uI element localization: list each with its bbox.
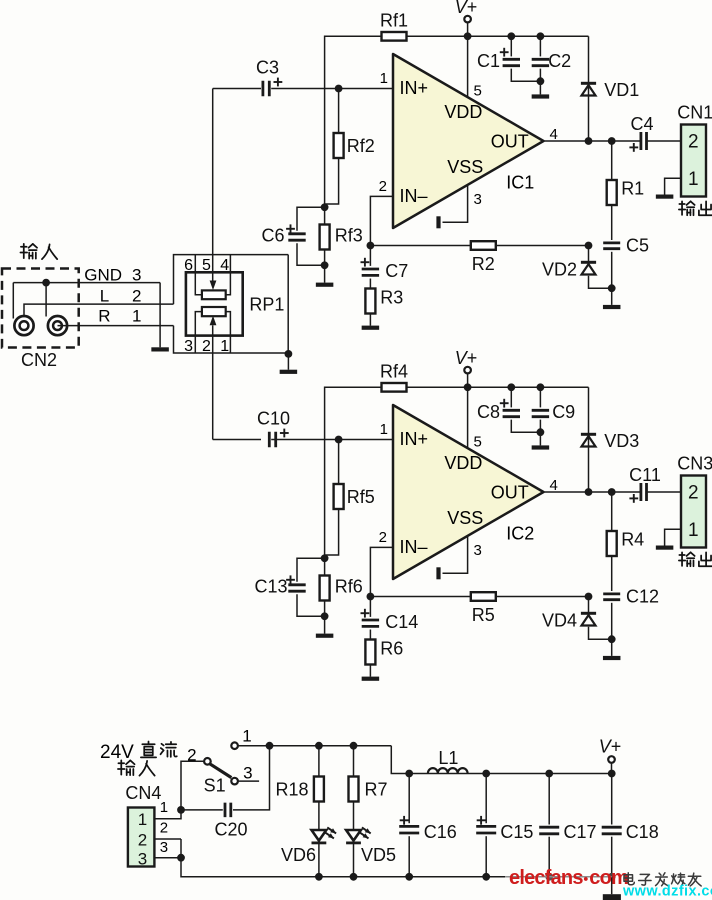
connector CN1	[681, 125, 706, 197]
diode VD3	[581, 434, 596, 446]
wire	[589, 276, 612, 288]
ground	[362, 677, 380, 681]
wire	[505, 876, 612, 878]
svg-text:IN+: IN+	[400, 429, 429, 449]
junction	[608, 137, 616, 145]
wire	[369, 314, 371, 326]
resistor Rf1	[382, 32, 407, 41]
wire	[611, 603, 613, 656]
wire	[324, 250, 326, 283]
capacitor C4	[641, 132, 647, 150]
ground	[316, 634, 334, 638]
capacitor C17	[539, 827, 559, 834]
svg-text:R3: R3	[380, 288, 403, 308]
wire pin1	[271, 88, 393, 90]
svg-text:C17: C17	[564, 822, 597, 842]
junction	[545, 873, 553, 881]
svg-text:C7: C7	[385, 261, 408, 281]
capacitor C3	[263, 81, 269, 97]
capacitor C10	[269, 432, 275, 448]
wire pin5	[467, 387, 469, 448]
common bar pin3	[436, 567, 440, 579]
svg-text:C15: C15	[500, 822, 533, 842]
junction	[464, 32, 472, 40]
svg-text:Rf2: Rf2	[347, 136, 375, 156]
svg-text:5: 5	[474, 83, 482, 100]
wire	[648, 140, 681, 142]
svg-text:Rf3: Rf3	[335, 226, 363, 246]
junction	[367, 593, 375, 601]
LED VD5	[346, 827, 371, 843]
resistor Rf2	[334, 133, 344, 158]
svg-text:C13: C13	[254, 577, 287, 597]
resistor R7	[349, 777, 359, 802]
wire pin3	[443, 536, 468, 573]
wire	[539, 36, 541, 56]
svg-text:C6: C6	[261, 226, 284, 246]
resistor R2	[471, 241, 496, 250]
svg-text:2: 2	[160, 820, 168, 837]
capacitor C7	[362, 269, 379, 275]
svg-text:1: 1	[160, 799, 168, 816]
svg-text:Rf6: Rf6	[335, 577, 363, 597]
wire	[195, 255, 202, 295]
junction	[608, 770, 616, 778]
wire	[154, 838, 181, 840]
svg-text:C1: C1	[477, 51, 500, 71]
svg-text:1: 1	[242, 727, 251, 746]
wire	[325, 387, 382, 558]
junction	[585, 488, 593, 496]
wire input	[213, 439, 261, 441]
svg-text:5: 5	[202, 257, 211, 274]
ground	[603, 894, 621, 900]
svg-text:V+: V+	[455, 348, 478, 368]
switch S1 throw 3	[231, 778, 238, 785]
junction	[177, 854, 185, 862]
svg-text:24V: 24V	[100, 742, 134, 763]
wire pin2	[370, 547, 393, 596]
svg-text:2: 2	[132, 287, 141, 306]
wire	[408, 836, 410, 877]
junction	[42, 279, 50, 287]
wire	[648, 491, 681, 493]
junction	[266, 742, 274, 750]
resistor Rf3	[320, 225, 330, 250]
svg-text:4: 4	[220, 257, 229, 274]
svg-text:2: 2	[379, 529, 387, 546]
svg-text:2: 2	[187, 746, 196, 765]
svg-text:CN2: CN2	[21, 350, 57, 370]
inductor L1	[428, 768, 468, 773]
wire	[324, 558, 326, 575]
wire	[338, 440, 340, 485]
wire	[180, 839, 182, 858]
junction	[608, 873, 616, 881]
capacitor C11	[641, 483, 647, 501]
wire OUT	[544, 491, 640, 493]
svg-text:3: 3	[243, 764, 252, 783]
svg-text:2: 2	[379, 178, 387, 195]
svg-text:C18: C18	[626, 822, 659, 842]
svg-text:V+: V+	[599, 737, 622, 757]
wire	[611, 763, 613, 774]
wire	[181, 876, 505, 878]
svg-text:L: L	[100, 287, 109, 306]
svg-text:RP1: RP1	[249, 295, 284, 315]
capacitor C16	[399, 826, 419, 833]
wire	[539, 420, 541, 446]
op-amp IC1	[393, 54, 544, 228]
wire	[181, 858, 319, 877]
ground	[603, 656, 621, 660]
op-amp IC2	[393, 405, 544, 579]
wire	[318, 843, 320, 877]
wire	[511, 69, 540, 82]
connector CN3	[681, 476, 706, 548]
wire	[611, 556, 613, 591]
wire VD column	[588, 36, 590, 141]
wire	[510, 387, 512, 407]
resistor Rf6	[320, 576, 330, 601]
junction	[507, 383, 515, 391]
svg-text:3: 3	[474, 542, 482, 559]
svg-text:OUT: OUT	[491, 132, 529, 152]
wire CN pin1	[665, 178, 681, 194]
ground	[532, 445, 550, 449]
junction	[177, 806, 185, 814]
wire	[318, 802, 320, 831]
svg-text:Rf1: Rf1	[380, 11, 408, 31]
V+ terminal	[464, 367, 471, 374]
junction	[285, 350, 293, 358]
RP1 pin2 wiper arrow	[210, 316, 217, 326]
svg-text:IC1: IC1	[506, 173, 534, 193]
junction	[464, 383, 472, 391]
wire	[324, 601, 326, 634]
wire	[181, 809, 223, 811]
junction	[335, 436, 343, 444]
junction	[608, 635, 616, 643]
wire input	[213, 88, 261, 90]
resistor R4	[607, 531, 617, 556]
V+ terminal	[608, 756, 615, 763]
ground	[280, 370, 298, 374]
label 输出 (output)	[679, 201, 712, 215]
wire	[548, 774, 550, 825]
wire	[353, 746, 355, 777]
svg-text:C4: C4	[630, 114, 653, 134]
junction	[585, 242, 593, 250]
junction	[482, 873, 490, 881]
svg-text:6: 6	[184, 257, 193, 274]
capacitor C2	[532, 59, 549, 65]
wire VD column	[588, 387, 590, 492]
svg-text:R1: R1	[621, 179, 644, 199]
capacitor C13	[288, 585, 305, 591]
junction	[315, 742, 323, 750]
junction	[321, 612, 329, 620]
svg-text:1: 1	[132, 307, 141, 326]
wire	[370, 596, 470, 598]
svg-text:C3: C3	[256, 58, 279, 78]
svg-text:C10: C10	[257, 409, 290, 429]
wire	[369, 279, 371, 289]
wire	[611, 141, 613, 180]
svg-text:2: 2	[202, 338, 211, 355]
wire	[297, 558, 325, 581]
svg-text:C9: C9	[552, 402, 575, 422]
svg-text:2: 2	[138, 831, 147, 850]
wire	[611, 252, 613, 305]
svg-text:VSS: VSS	[447, 157, 483, 177]
svg-text:C16: C16	[424, 822, 457, 842]
svg-text:V+: V+	[455, 0, 478, 17]
junction	[482, 770, 490, 778]
wire	[589, 627, 612, 639]
svg-text:CN4: CN4	[125, 783, 161, 803]
wire	[159, 283, 161, 348]
common bar pin3	[436, 216, 440, 228]
svg-text:R6: R6	[380, 639, 403, 659]
jack L (RCA)	[14, 316, 33, 335]
wire	[511, 420, 540, 433]
svg-text:5: 5	[474, 434, 482, 451]
junction	[350, 873, 358, 881]
junction	[585, 137, 593, 145]
svg-text:S1: S1	[204, 776, 226, 796]
wire	[611, 774, 613, 825]
ground	[362, 326, 380, 330]
switch S1 blade	[210, 764, 232, 778]
diode VD4	[581, 613, 596, 625]
wire	[325, 36, 382, 207]
capacitor C14	[362, 620, 379, 626]
wire CN pin1	[665, 529, 681, 545]
svg-text:C20: C20	[214, 820, 247, 840]
jack R (RCA)	[48, 316, 67, 335]
svg-text:L1: L1	[438, 748, 458, 768]
svg-text:C12: C12	[626, 587, 659, 607]
wire	[588, 246, 590, 262]
wire pin3	[443, 185, 468, 222]
svg-text:3: 3	[132, 266, 141, 285]
junction	[585, 593, 593, 601]
svg-text:2: 2	[688, 132, 699, 153]
svg-text:3: 3	[138, 849, 147, 868]
junction	[321, 203, 329, 211]
wire	[353, 802, 355, 831]
svg-text:1: 1	[220, 338, 229, 355]
svg-text:1: 1	[138, 810, 147, 829]
wire	[45, 283, 47, 317]
svg-text:GND: GND	[84, 266, 122, 285]
junction	[367, 242, 375, 250]
RP1 pin5 wiper arrow	[210, 281, 217, 291]
svg-text:elecfans●com: elecfans●com	[509, 867, 628, 889]
capacitor C5	[603, 243, 620, 249]
wire	[226, 255, 231, 295]
wire	[13, 282, 160, 284]
capacitor C6	[288, 234, 305, 240]
wire	[467, 22, 469, 36]
svg-text:R5: R5	[472, 605, 495, 625]
resistor R6	[365, 640, 375, 665]
wire	[611, 877, 613, 894]
wire	[496, 245, 589, 247]
svg-text:IC2: IC2	[506, 524, 534, 544]
ground	[316, 283, 334, 287]
svg-text:www.dzfix.com: www.dzfix.com	[622, 884, 712, 900]
svg-text:IN–: IN–	[400, 537, 428, 557]
ground	[532, 94, 550, 98]
wire	[338, 89, 340, 134]
svg-text:R7: R7	[365, 780, 388, 800]
LED VD6	[312, 827, 337, 843]
junction	[537, 383, 545, 391]
junction	[405, 873, 413, 881]
wire	[58, 325, 174, 327]
junction	[537, 428, 545, 436]
wire	[174, 326, 289, 353]
svg-text:IN–: IN–	[400, 186, 428, 206]
wire pin2	[370, 196, 393, 245]
wire	[318, 746, 320, 777]
label 输入 (input)	[20, 244, 57, 259]
resistor Rf5	[334, 484, 344, 509]
wire	[369, 246, 371, 266]
svg-text:VSS: VSS	[447, 508, 483, 528]
wire	[588, 597, 590, 613]
wire	[195, 312, 202, 353]
watermark 电子发烧友	[624, 873, 701, 886]
resistor R5	[471, 592, 496, 601]
ground	[151, 347, 169, 351]
svg-text:Rf5: Rf5	[347, 487, 375, 507]
V+ terminal	[464, 16, 471, 23]
svg-text:VDD: VDD	[444, 102, 482, 122]
diode VD2	[581, 262, 596, 274]
wire	[212, 89, 214, 283]
wire	[539, 69, 541, 95]
wire	[369, 630, 371, 640]
junction	[507, 32, 515, 40]
svg-text:CN1: CN1	[677, 103, 712, 123]
svg-text:R: R	[98, 307, 110, 326]
svg-text:IN+: IN+	[400, 78, 429, 98]
wire	[510, 36, 512, 56]
capacitor C15	[476, 826, 496, 833]
resistor R1	[607, 180, 617, 205]
wire	[325, 509, 339, 555]
wire OUT	[544, 140, 640, 142]
resistor R3	[365, 289, 375, 314]
wire	[154, 761, 204, 818]
pot element lower	[202, 307, 226, 316]
svg-text:1: 1	[688, 169, 699, 190]
wire	[212, 325, 214, 439]
wire pin5	[467, 36, 469, 97]
connector CN2 dashed box	[2, 269, 79, 348]
svg-text:3: 3	[184, 338, 193, 355]
wire	[611, 492, 613, 531]
svg-text:VD6: VD6	[281, 845, 316, 865]
svg-text:C2: C2	[548, 51, 571, 71]
resistor R18	[314, 777, 324, 802]
svg-text:OUT: OUT	[491, 483, 529, 503]
wire	[407, 35, 589, 37]
wire	[325, 158, 339, 204]
wire	[24, 304, 174, 316]
junction	[315, 873, 323, 881]
wire	[496, 596, 589, 598]
wire	[297, 243, 325, 265]
svg-text:C14: C14	[385, 612, 418, 632]
switch S1 pole 2	[204, 758, 211, 765]
wire	[287, 255, 289, 354]
wire pin1	[271, 439, 393, 441]
wire	[370, 245, 470, 247]
wire	[407, 386, 589, 388]
wire	[297, 207, 325, 230]
svg-text:Rf4: Rf4	[380, 362, 408, 382]
pot element upper	[202, 290, 226, 299]
wire	[287, 354, 289, 370]
ground	[656, 546, 674, 550]
switch S1 throw 1	[231, 742, 238, 749]
wire	[270, 745, 392, 747]
connector CN4	[128, 808, 154, 867]
junction	[321, 261, 329, 269]
svg-text:R4: R4	[621, 530, 644, 550]
wire	[226, 312, 231, 353]
svg-text:VDD: VDD	[444, 453, 482, 473]
junction	[335, 85, 343, 93]
wire	[12, 283, 14, 319]
junction	[405, 770, 413, 778]
wire	[174, 255, 289, 305]
wire	[485, 774, 487, 824]
wire	[154, 857, 181, 859]
potentiometer RP1	[186, 272, 243, 335]
wire	[408, 774, 410, 824]
svg-text:3: 3	[474, 191, 482, 208]
diode VD1	[581, 83, 596, 95]
wire	[233, 746, 270, 810]
wire	[548, 837, 550, 877]
junction	[350, 742, 358, 750]
junction	[545, 770, 553, 778]
junction	[321, 554, 329, 562]
capacitor C1	[503, 59, 520, 65]
label 输出 (output)	[679, 552, 712, 566]
capacitor C20	[225, 803, 231, 818]
svg-text:CN3: CN3	[677, 454, 712, 474]
svg-text:R18: R18	[275, 780, 308, 800]
wire	[369, 665, 371, 677]
capacitor C8	[503, 410, 520, 416]
wire	[369, 597, 371, 617]
resistor Rf4	[382, 383, 407, 392]
wire	[611, 837, 613, 877]
svg-text:1: 1	[380, 421, 388, 438]
wire	[238, 745, 270, 747]
wire	[353, 843, 355, 877]
svg-text:R2: R2	[472, 254, 495, 274]
wire	[485, 836, 487, 877]
ground	[656, 195, 674, 199]
svg-text:VD1: VD1	[604, 80, 639, 100]
